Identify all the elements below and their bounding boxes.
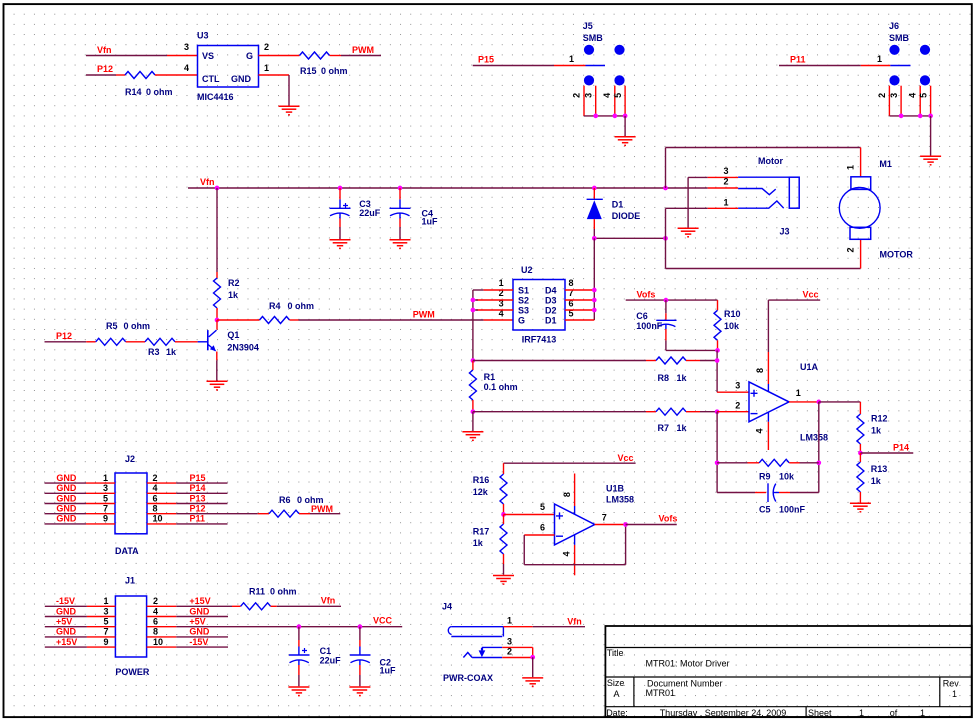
svg-text:R8: R8 [658,373,670,383]
svg-text:R2: R2 [228,278,240,288]
svg-text:R15: R15 [300,66,317,76]
svg-text:U2: U2 [521,265,533,275]
svg-text:9: 9 [103,637,108,647]
svg-text:GND: GND [56,504,77,514]
svg-text:SMB: SMB [889,33,910,43]
svg-text:7: 7 [602,513,607,523]
svg-text:1k: 1k [166,347,177,357]
svg-text:MIC4416: MIC4416 [197,92,234,102]
svg-text:3: 3 [103,606,108,616]
svg-text:D2: D2 [545,306,557,316]
svg-text:5: 5 [918,93,928,98]
svg-text:1uF: 1uF [380,666,397,676]
svg-text:0 ohm: 0 ohm [270,587,297,597]
svg-text:GND: GND [56,627,77,637]
svg-text:Vfn: Vfn [567,616,582,626]
svg-text:R11: R11 [249,587,265,597]
svg-text:22uF: 22uF [359,208,381,218]
svg-text:GND: GND [189,627,210,637]
svg-text:1k: 1k [871,476,882,486]
svg-text:R16: R16 [473,475,490,485]
svg-text:3: 3 [584,93,594,98]
svg-text:0 ohm: 0 ohm [146,87,173,97]
svg-text:0 ohm: 0 ohm [124,321,151,331]
svg-text:Vofs: Vofs [637,289,656,299]
svg-text:1k: 1k [228,290,239,300]
svg-text:Vfn: Vfn [97,45,112,55]
svg-text:1: 1 [952,689,957,699]
svg-text:Vfn: Vfn [200,177,215,187]
svg-text:POWER: POWER [115,667,150,677]
svg-text:J2: J2 [125,454,135,464]
svg-text:2: 2 [153,473,158,483]
svg-text:S3: S3 [518,306,529,316]
svg-text:8: 8 [153,504,158,514]
svg-text:1k: 1k [871,426,882,436]
svg-text:J5: J5 [583,21,593,31]
svg-text:8: 8 [562,492,572,497]
svg-text:1: 1 [499,278,504,288]
svg-text:5: 5 [103,493,108,503]
svg-text:0 ohm: 0 ohm [321,66,348,76]
svg-text:Sheet: Sheet [808,708,832,718]
svg-text:1: 1 [796,388,801,398]
svg-text:GND: GND [56,473,77,483]
svg-text:2: 2 [153,596,158,606]
svg-text:1k: 1k [473,538,484,548]
svg-text:5: 5 [103,617,108,627]
svg-text:2: 2 [507,647,512,657]
svg-text:GND: GND [56,606,77,616]
svg-text:PWR-COAX: PWR-COAX [443,673,493,683]
svg-text:Vcc: Vcc [618,453,634,463]
svg-text:3: 3 [723,166,728,176]
svg-text:Vofs: Vofs [659,514,678,524]
svg-text:GND: GND [56,514,77,524]
svg-text:R10: R10 [724,309,741,319]
svg-text:10k: 10k [779,472,795,482]
svg-text:+15V: +15V [56,637,77,647]
svg-text:3: 3 [735,381,740,391]
svg-text:D1: D1 [612,200,624,210]
svg-text:Rev: Rev [943,679,960,689]
svg-text:1k: 1k [677,423,688,433]
svg-text:1: 1 [103,596,108,606]
svg-text:R3: R3 [148,347,160,357]
svg-text:GND: GND [56,483,77,493]
svg-text:PWM: PWM [311,504,333,514]
svg-text:7: 7 [103,504,108,514]
svg-text:R6: R6 [279,495,291,505]
svg-text:8: 8 [569,278,574,288]
svg-text:J1: J1 [125,575,135,585]
svg-text:10k: 10k [724,321,740,331]
svg-text:2: 2 [723,177,728,187]
svg-text:G: G [518,316,525,326]
svg-text:Document Number: Document Number [647,679,723,689]
svg-text:MTR01: Motor Driver: MTR01: Motor Driver [646,659,730,669]
svg-text:100nF: 100nF [636,321,663,331]
svg-text:P15: P15 [478,55,494,65]
svg-text:C5: C5 [759,505,771,515]
svg-text:9: 9 [103,514,108,524]
svg-text:R12: R12 [871,414,888,424]
svg-text:8: 8 [755,368,765,373]
svg-text:P11: P11 [790,55,806,65]
svg-text:10: 10 [153,514,163,524]
svg-text:PWM: PWM [352,45,374,55]
svg-text:1: 1 [569,54,574,64]
svg-text:3: 3 [184,42,189,52]
svg-text:VCC: VCC [373,615,393,625]
svg-text:4: 4 [153,606,158,616]
svg-text:S2: S2 [518,296,529,306]
svg-text:GND: GND [231,74,252,84]
svg-text:MOTOR: MOTOR [880,250,914,260]
svg-text:GND: GND [189,606,210,616]
svg-text:Size: Size [607,678,625,688]
svg-text:4: 4 [153,483,158,493]
svg-text:1: 1 [507,615,512,625]
svg-text:1: 1 [846,165,856,170]
svg-text:Vcc: Vcc [803,289,819,299]
svg-text:P14: P14 [190,483,206,493]
svg-text:4: 4 [602,93,612,98]
svg-text:1k: 1k [677,373,688,383]
svg-text:6: 6 [540,523,545,533]
svg-text:R4: R4 [269,301,281,311]
svg-text:2: 2 [735,400,740,410]
svg-text:J4: J4 [442,602,452,612]
svg-text:VS: VS [202,51,214,61]
svg-text:U3: U3 [197,31,209,41]
svg-text:1: 1 [103,473,108,483]
svg-text:4: 4 [755,428,765,433]
svg-text:Q1: Q1 [227,330,239,340]
svg-text:P15: P15 [190,473,206,483]
svg-text:0 ohm: 0 ohm [288,301,315,311]
svg-text:R9: R9 [759,472,771,482]
svg-text:1: 1 [877,54,882,64]
svg-text:IRF7413: IRF7413 [522,335,557,345]
svg-text:6: 6 [153,617,158,627]
svg-text:2: 2 [264,42,269,52]
svg-text:R5: R5 [106,321,118,331]
svg-text:4: 4 [907,93,917,98]
svg-text:+5V: +5V [189,617,205,627]
svg-text:1: 1 [920,708,925,718]
svg-text:1: 1 [723,198,728,208]
svg-text:DIODE: DIODE [612,211,641,221]
svg-text:G: G [246,51,253,61]
svg-text:P12: P12 [190,504,206,514]
svg-text:CTL: CTL [202,74,220,84]
svg-text:P14: P14 [893,443,909,453]
svg-text:8: 8 [153,627,158,637]
svg-text:R13: R13 [871,464,888,474]
svg-text:U1B: U1B [606,483,625,493]
svg-text:5: 5 [613,93,623,98]
svg-text:Vfn: Vfn [321,596,336,606]
svg-text:R1: R1 [484,372,496,382]
svg-text:GND: GND [56,493,77,503]
svg-text:J6: J6 [889,21,899,31]
svg-text:-15V: -15V [56,596,75,606]
svg-text:0.1 ohm: 0.1 ohm [484,382,518,392]
svg-text:2: 2 [877,93,887,98]
svg-text:3: 3 [507,637,512,647]
svg-text:6: 6 [153,493,158,503]
svg-text:12k: 12k [473,487,489,497]
svg-text:DATA: DATA [115,546,139,556]
svg-text:A: A [614,689,620,699]
svg-text:5: 5 [540,502,545,512]
svg-text:2: 2 [846,247,856,252]
svg-text:22uF: 22uF [320,656,342,666]
svg-text:P11: P11 [190,514,206,524]
svg-text:7: 7 [103,627,108,637]
svg-text:Motor: Motor [758,156,783,166]
svg-text:+5V: +5V [56,617,72,627]
svg-text:U1A: U1A [800,362,819,372]
svg-text:of: of [890,708,898,718]
svg-text:Thursday , September 24, 2009: Thursday , September 24, 2009 [660,708,787,718]
svg-text:P12: P12 [56,331,72,341]
svg-text:C6: C6 [636,311,648,321]
svg-text:4: 4 [184,63,189,73]
svg-text:R17: R17 [473,527,490,537]
svg-text:Title: Title [607,648,624,658]
svg-text:C1: C1 [320,646,332,656]
svg-text:1: 1 [264,63,269,73]
svg-text:D4: D4 [545,286,557,296]
svg-text:D3: D3 [545,296,557,306]
svg-text:-15V: -15V [189,637,208,647]
svg-text:10: 10 [153,637,163,647]
svg-text:4: 4 [562,551,572,556]
svg-text:1uF: 1uF [422,217,439,227]
svg-text:LM358: LM358 [800,433,828,443]
svg-text:2N3904: 2N3904 [227,342,259,352]
svg-text:2: 2 [571,93,581,98]
svg-text:3: 3 [889,93,899,98]
svg-text:+15V: +15V [189,596,210,606]
svg-text:P13: P13 [190,493,206,503]
svg-text:100nF: 100nF [779,505,806,515]
svg-text:M1: M1 [879,159,892,169]
svg-text:PWM: PWM [413,310,435,320]
svg-text:R14: R14 [125,87,142,97]
svg-text:LM358: LM358 [606,494,634,504]
svg-text:P12: P12 [97,64,113,74]
svg-text:3: 3 [103,483,108,493]
svg-text:1: 1 [859,708,864,718]
svg-text:R7: R7 [658,423,670,433]
svg-text:J3: J3 [780,227,790,237]
svg-text:S1: S1 [518,286,529,296]
svg-text:Date:: Date: [606,708,628,718]
svg-text:MTR01: MTR01 [646,688,676,698]
svg-text:SMB: SMB [583,33,604,43]
svg-text:D1: D1 [545,316,557,326]
